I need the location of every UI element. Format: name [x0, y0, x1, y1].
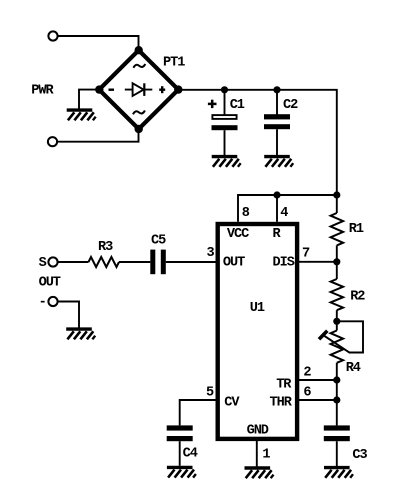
svg-text:1: 1: [262, 448, 270, 463]
svg-text:CV: CV: [224, 396, 240, 411]
ground at C2: [264, 157, 293, 167]
node top of R1: [333, 191, 340, 198]
svg-text:3: 3: [207, 246, 215, 261]
terminal bottom input: [48, 137, 57, 146]
svg-text:R3: R3: [98, 240, 113, 255]
wire pin 4 stub: [276, 195, 278, 222]
svg-text:U1: U1: [250, 301, 265, 316]
svg-text:7: 7: [302, 247, 310, 262]
wire C3 to ground: [336, 441, 338, 466]
node above pin 4: [273, 191, 280, 198]
ground at C4: [167, 467, 196, 477]
node C2 junction: [273, 86, 280, 93]
op-amp U1 body: [218, 224, 297, 439]
wire C1 stub: [224, 90, 226, 115]
wire node pin2 to C3: [336, 380, 338, 425]
wire R4 wiper loop: [337, 321, 363, 352]
wire C5 to pin 3: [166, 261, 218, 263]
svg-text:DIS: DIS: [273, 256, 295, 271]
svg-text:C4: C4: [183, 447, 198, 462]
svg-text:GND: GND: [247, 424, 269, 439]
svg-text:R1: R1: [349, 222, 364, 237]
ground at PWR: [67, 110, 96, 120]
diode inside bridge: [125, 89, 153, 91]
capacitor C4: [167, 425, 198, 461]
capacitor C3: [324, 425, 368, 463]
wiper arrow of R4: [324, 335, 351, 353]
svg-text:PWR: PWR: [31, 84, 54, 99]
ground at C1: [212, 157, 241, 167]
svg-text:2: 2: [303, 366, 311, 381]
svg-text:C1: C1: [230, 98, 245, 113]
wire S terminal to R3: [58, 261, 89, 263]
svg-text:C3: C3: [352, 448, 367, 463]
ground at pin 1: [244, 468, 273, 478]
wire VCC/R rail: [238, 195, 337, 222]
svg-text:C2: C2: [283, 98, 298, 113]
svg-text:PT1: PT1: [163, 56, 185, 71]
capacitor C5: [150, 234, 166, 275]
svg-text:OUT: OUT: [223, 256, 245, 271]
resistor R2: [331, 262, 344, 322]
capacitor C2: [264, 98, 298, 129]
svg-text:THR: THR: [270, 396, 293, 411]
wire pin 7: [297, 261, 336, 263]
svg-text:S: S: [39, 256, 47, 271]
trimmer R4: [319, 321, 350, 380]
wire bridge + corner to top rail and down right rail: [178, 90, 336, 195]
svg-text:4: 4: [280, 206, 288, 221]
node pin 6: [333, 396, 340, 403]
wire C2 to ground: [276, 129, 278, 155]
ground at C3: [324, 468, 353, 478]
resistor R3: [89, 257, 120, 267]
svg-text:5: 5: [206, 386, 214, 401]
svg-text:TR: TR: [276, 378, 292, 393]
svg-text:VCC: VCC: [227, 227, 249, 242]
wire minus terminal to ground: [58, 302, 79, 328]
node C1 junction: [221, 86, 228, 93]
wire terminal bottom to bridge bottom corner: [57, 129, 138, 142]
svg-text:-: -: [39, 296, 46, 311]
node pin 2: [333, 376, 340, 383]
svg-text:R4: R4: [346, 361, 361, 376]
terminal top input: [48, 31, 57, 40]
wire pin 1 GND to ground: [256, 439, 258, 467]
ground at minus terminal: [66, 329, 95, 339]
svg-text:R2: R2: [350, 290, 365, 305]
wire C4 to ground: [179, 441, 181, 466]
wire bridge left corner to ground: [79, 90, 99, 109]
capacitor C1: [208, 98, 245, 130]
terminal minus output: [48, 297, 57, 306]
node pin 7 / R1 / R2: [333, 258, 340, 265]
svg-text:OUT: OUT: [39, 276, 61, 291]
wire pin 6: [297, 399, 336, 401]
bridge rectifier PT1: [95, 46, 182, 133]
svg-text:8: 8: [242, 206, 250, 221]
wire R3 to C5: [119, 261, 150, 263]
wire C2 stub: [276, 90, 278, 115]
wire pin 2: [297, 379, 336, 381]
resistor R1: [331, 195, 344, 262]
svg-text:6: 6: [303, 386, 311, 401]
terminal S output: [48, 257, 57, 266]
wire terminal top to bridge top corner: [58, 36, 139, 50]
svg-text:C5: C5: [151, 234, 166, 249]
wire C1 to ground: [224, 130, 226, 155]
wire pin 5 to C4: [180, 400, 218, 425]
node R2 / R4: [333, 318, 340, 325]
